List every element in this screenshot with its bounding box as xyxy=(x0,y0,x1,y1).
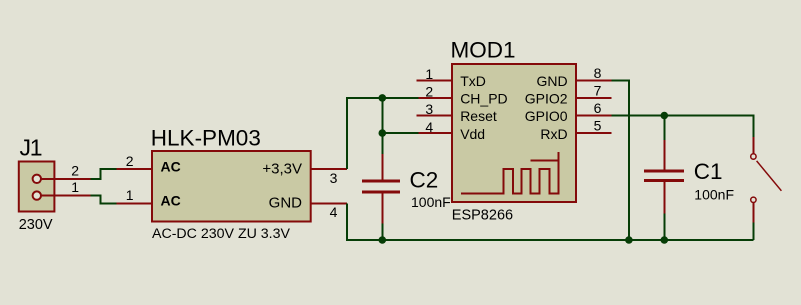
junction dot GND riser at rail xyxy=(625,236,633,244)
MOD1 pin 6 stub GPIO0 xyxy=(576,115,611,117)
wire J1.2 to HLK AC(2) xyxy=(91,169,117,179)
switch top terminal circle xyxy=(751,154,756,159)
wire GPIO0 net to switch xyxy=(611,116,753,137)
HLK pin 1 stub (AC bottom) xyxy=(116,202,152,204)
capacitor C2 bottom pin xyxy=(381,194,383,224)
HLK-PM03 module body xyxy=(152,151,311,222)
wire MOD1 GND to ground rail xyxy=(611,80,629,240)
svg-text:8: 8 xyxy=(594,65,602,81)
J1 pin 2 red lead xyxy=(41,178,91,180)
svg-text:4: 4 xyxy=(330,204,338,220)
switch bottom pin xyxy=(752,203,754,223)
svg-text:CH_PD: CH_PD xyxy=(460,91,507,107)
svg-text:AC: AC xyxy=(161,158,181,174)
capacitor C2 plates xyxy=(362,181,400,192)
HLK pin 4 stub (GND) xyxy=(311,202,347,204)
svg-text:4: 4 xyxy=(425,119,433,135)
svg-text:RxD: RxD xyxy=(540,126,567,142)
svg-text:C2: C2 xyxy=(410,168,439,193)
svg-text:5: 5 xyxy=(594,118,602,134)
svg-text:AC-DC 230V ZU 3.3V: AC-DC 230V ZU 3.3V xyxy=(152,226,291,242)
svg-text:HLK-PM03: HLK-PM03 xyxy=(151,126,261,151)
svg-text:6: 6 xyxy=(594,100,602,116)
svg-text:2: 2 xyxy=(425,84,433,100)
svg-text:MOD1: MOD1 xyxy=(451,38,516,63)
svg-text:TxD: TxD xyxy=(460,73,486,89)
J1 pin 1 terminal circle xyxy=(33,191,41,199)
svg-text:AC: AC xyxy=(161,193,181,209)
capacitor C2 top pin xyxy=(381,154,383,180)
svg-text:Vdd: Vdd xyxy=(460,126,485,142)
J1 pin 2 terminal circle xyxy=(33,175,41,183)
svg-text:GND: GND xyxy=(269,195,303,212)
capacitor C1 top pin xyxy=(663,140,665,170)
wire J1.1 to HLK AC(1) xyxy=(91,196,117,204)
wire C1 top lead (green part) xyxy=(663,116,665,140)
svg-text:7: 7 xyxy=(594,82,602,98)
svg-text:1: 1 xyxy=(425,66,433,82)
svg-text:C1: C1 xyxy=(694,159,723,184)
capacitor C1 plates xyxy=(644,171,684,180)
wire C1 bottom to ground rail xyxy=(663,213,665,240)
svg-text:GPIO0: GPIO0 xyxy=(525,108,568,124)
HLK pin 3 stub (+3,3V) xyxy=(311,168,347,170)
connector J1 body xyxy=(19,162,55,212)
svg-text:230V: 230V xyxy=(19,217,53,233)
svg-text:ESP8266: ESP8266 xyxy=(452,208,513,224)
wire 3.3V branch down to Vdd and C2 xyxy=(382,98,418,133)
svg-text:GND: GND xyxy=(536,73,567,89)
MOD1 pin 7 stub GPIO2 xyxy=(576,97,611,99)
switch top pin xyxy=(752,137,754,154)
switch bottom terminal circle xyxy=(751,197,756,202)
wire +3.3V riser to CH_PD row xyxy=(347,98,419,169)
svg-text:3: 3 xyxy=(425,101,433,117)
capacitor C1 bottom pin xyxy=(663,182,665,213)
MOD1 pin 8 stub GND xyxy=(576,79,611,81)
MOD1 square-wave logo xyxy=(461,152,559,194)
svg-text:100nF: 100nF xyxy=(694,187,734,203)
svg-text:100nF: 100nF xyxy=(411,194,451,210)
svg-text:GPIO2: GPIO2 xyxy=(525,91,568,107)
svg-text:+3,3V: +3,3V xyxy=(262,160,302,177)
MOD1 pin 1 stub TxD xyxy=(417,79,453,81)
junction dot Vdd row xyxy=(379,129,387,137)
svg-text:2: 2 xyxy=(71,162,79,178)
ESP8266 module MOD1 body xyxy=(452,64,576,202)
junction dot C2 at rail xyxy=(379,236,387,244)
svg-text:J1: J1 xyxy=(20,134,42,160)
wire C2 top lead (green part) xyxy=(381,133,383,154)
MOD1 pin 4 stub Vdd xyxy=(419,132,452,134)
svg-text:1: 1 xyxy=(71,179,79,195)
MOD1 pin 5 stub RxD xyxy=(576,132,611,134)
junction dot CH_PD row xyxy=(379,94,387,102)
MOD1 pin 2 stub CH_PD xyxy=(419,97,452,99)
wire C2 bottom to ground rail xyxy=(381,224,383,240)
wire switch bottom to ground rail xyxy=(752,223,754,240)
svg-text:1: 1 xyxy=(126,187,134,203)
junction dot C1 at rail xyxy=(661,236,669,244)
MOD1 pin 3 stub Reset xyxy=(417,115,453,117)
svg-text:Reset: Reset xyxy=(460,108,497,124)
svg-text:2: 2 xyxy=(126,153,134,169)
ground rail wire xyxy=(347,203,754,240)
svg-text:3: 3 xyxy=(330,170,338,186)
switch blade xyxy=(757,161,782,191)
J1 pin 1 red lead xyxy=(41,195,91,197)
HLK pin 2 stub (AC top) xyxy=(116,168,152,170)
junction dot GPIO0 / C1 xyxy=(661,112,669,120)
